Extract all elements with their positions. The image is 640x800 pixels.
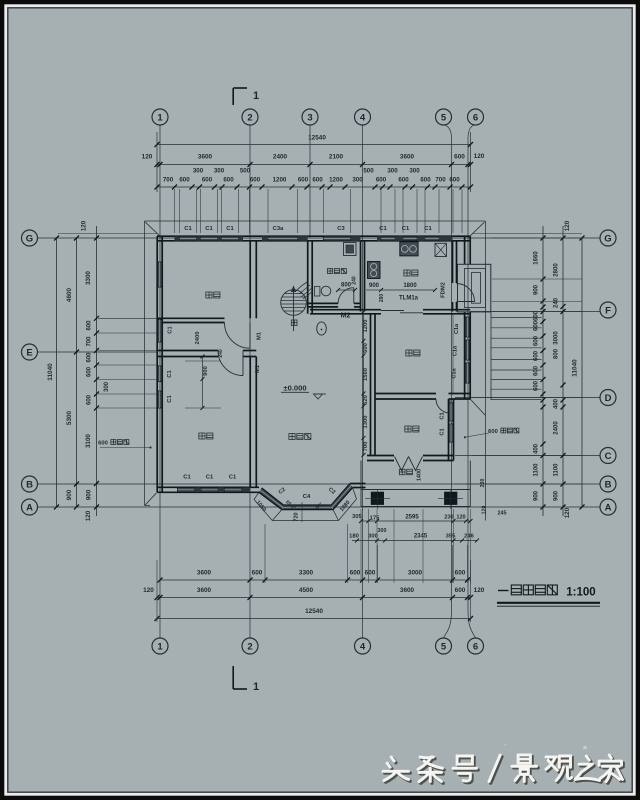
living room bottom-right wall	[350, 483, 366, 485]
bathroom flue square	[344, 243, 357, 256]
svg-text:3300: 3300	[299, 570, 314, 577]
svg-text:2400: 2400	[273, 154, 288, 161]
svg-text:1800: 1800	[403, 283, 417, 289]
svg-text:600: 600	[223, 177, 234, 184]
bedroom right wall lower	[249, 357, 251, 488]
svg-text:C1a: C1a	[453, 345, 459, 356]
svg-text:±0.000: ±0.000	[283, 384, 306, 393]
svg-text:4: 4	[360, 641, 366, 652]
svg-text:3600: 3600	[400, 587, 415, 594]
top extension lines to wall	[174, 189, 176, 233]
corner diagonal bay corners	[254, 492, 259, 499]
title underline double	[497, 602, 600, 604]
svg-text:B: B	[26, 479, 33, 490]
porch column right	[445, 492, 457, 504]
door M1 bedroom1 arc	[224, 323, 250, 349]
axis line 4 vertical	[362, 125, 364, 638]
windows C1a dining right wall x3	[465, 317, 470, 337]
axis line 1 vertical	[159, 125, 161, 638]
svg-text:246: 246	[464, 534, 474, 540]
svg-text:3100: 3100	[85, 434, 92, 448]
axis circle F right	[600, 302, 616, 318]
bottom dim row A details	[160, 579, 471, 581]
right extension lines	[492, 237, 582, 239]
axis line F horizontal	[470, 311, 600, 313]
svg-text:400: 400	[554, 398, 560, 409]
svg-text:600: 600	[363, 343, 369, 353]
svg-text:800: 800	[341, 283, 352, 289]
axis circle E left	[22, 344, 38, 360]
top dim row total 12540	[157, 144, 471, 146]
svg-text:245: 245	[498, 511, 507, 517]
axis circle G right	[600, 230, 616, 246]
svg-text:1560: 1560	[363, 368, 369, 381]
svg-text:3600: 3600	[197, 570, 212, 577]
svg-text:600: 600	[454, 154, 465, 161]
svg-text:1200: 1200	[273, 177, 287, 184]
svg-text:600: 600	[376, 177, 387, 184]
svg-text:2345: 2345	[414, 534, 428, 540]
svg-text:FDM2: FDM2	[441, 282, 447, 298]
corner diagonal top-left	[145, 222, 161, 237]
svg-text:C1: C1	[184, 226, 192, 232]
D-axis step wall	[449, 393, 471, 395]
svg-text:1200: 1200	[329, 177, 343, 184]
solid piers between top windows	[175, 236, 180, 241]
svg-text:C1: C1	[440, 428, 446, 435]
svg-text:3000: 3000	[408, 570, 423, 577]
spiral stair	[281, 290, 307, 316]
svg-text:C1: C1	[226, 226, 234, 232]
axis circle C right	[600, 448, 616, 464]
svg-text:11040: 11040	[572, 359, 579, 377]
svg-text:5300: 5300	[66, 410, 73, 425]
label porch 门廊	[399, 469, 405, 475]
svg-text:600: 600	[398, 177, 409, 184]
svg-text:300: 300	[104, 381, 110, 392]
svg-text:600: 600	[87, 394, 93, 405]
svg-text:C3: C3	[337, 226, 345, 232]
svg-text:TLM1a: TLM1a	[399, 296, 419, 302]
svg-text:4600: 4600	[66, 287, 73, 302]
svg-text:C1: C1	[183, 475, 191, 481]
axis circle 1 top	[152, 109, 168, 125]
bay window walls	[259, 488, 353, 510]
svg-text:120: 120	[564, 220, 571, 231]
axis 5 leader top	[444, 125, 452, 138]
svg-text:1100: 1100	[554, 463, 560, 477]
svg-text:D: D	[605, 393, 612, 404]
svg-text:600: 600	[250, 177, 261, 184]
axis 6 leader top	[468, 125, 476, 138]
svg-text:600: 600	[87, 320, 93, 331]
bathroom dim 800	[338, 289, 355, 291]
svg-text:1200: 1200	[363, 320, 369, 333]
svg-text:3600: 3600	[197, 587, 212, 594]
svg-text:500: 500	[240, 168, 251, 175]
svg-text:600: 600	[87, 366, 93, 377]
svg-text:C4: C4	[303, 494, 311, 500]
svg-text:2595: 2595	[405, 515, 419, 521]
right dim inner column	[542, 226, 544, 516]
svg-text:720: 720	[294, 512, 300, 521]
axis line 6 vertical	[467, 138, 469, 610]
svg-text:280: 280	[379, 294, 385, 303]
apron outline right	[485, 221, 487, 521]
kitchen stove	[400, 242, 418, 256]
svg-text:A: A	[605, 502, 612, 513]
toilet	[314, 287, 320, 297]
bathroom south wall	[308, 302, 338, 304]
label bedroom1 卧室	[206, 292, 212, 298]
door arc hall NE	[436, 399, 450, 413]
porch slab	[360, 461, 362, 507]
svg-text:3: 3	[307, 112, 312, 123]
solid piers bottom bedroom wall	[195, 488, 202, 493]
svg-text:1300: 1300	[363, 416, 369, 429]
svg-text:900: 900	[203, 366, 209, 376]
hall (guoting) right wall	[448, 399, 450, 461]
porch column left	[371, 492, 383, 504]
svg-text:G: G	[26, 233, 33, 244]
watermark 头条号 / 景观之家	[385, 759, 411, 782]
svg-text:300: 300	[368, 534, 378, 540]
label kitchen 厨房	[404, 270, 410, 276]
svg-text:6: 6	[473, 641, 478, 652]
label hall 过厅	[405, 426, 411, 432]
svg-text:C1: C1	[424, 226, 432, 232]
kitchen west wall	[360, 241, 362, 312]
axis line G horizontal	[38, 237, 600, 239]
svg-text:C3a: C3a	[273, 226, 284, 232]
svg-text:120: 120	[85, 510, 92, 521]
window C3a stair bay top	[268, 236, 298, 241]
entrance landing platform right	[458, 264, 491, 312]
axis 5 leader bottom	[444, 610, 452, 638]
axis line 5 vertical	[451, 138, 453, 610]
axis circle 2 bottom	[242, 638, 258, 654]
axis line E horizontal	[38, 351, 157, 353]
top dim row 2 axis spans	[157, 164, 471, 166]
bedroom right wall upper	[249, 241, 251, 318]
porch bottom dims row1	[361, 520, 471, 522]
apron outline left	[144, 221, 146, 506]
stair-bay east wall / bathroom west wall	[307, 241, 309, 314]
svg-text:230: 230	[444, 515, 453, 521]
svg-text:600: 600	[365, 570, 376, 577]
window C1 kitchen x3 top	[381, 236, 395, 241]
windows C1 bedroom2 bottom x3	[178, 488, 242, 493]
corner diagonal bottom-left	[145, 493, 156, 505]
svg-text:C1: C1	[167, 370, 173, 378]
axis circle A right	[600, 499, 616, 515]
title 一层平面图 1:100	[498, 590, 509, 592]
dining right exterior wall	[464, 312, 466, 400]
svg-text:3300: 3300	[85, 271, 92, 285]
faint dust specks	[583, 746, 587, 750]
bottom dim row B spans	[157, 597, 471, 599]
axis circle 4 bottom	[355, 638, 371, 654]
apron outline top	[145, 220, 486, 222]
svg-text:C1: C1	[440, 412, 446, 419]
label living room 会客厅	[289, 434, 295, 440]
axis circle A left	[22, 499, 38, 515]
svg-text:C1: C1	[205, 226, 213, 232]
svg-text:600: 600	[488, 429, 498, 435]
living/dining west wall	[370, 314, 372, 456]
svg-text:M1: M1	[257, 331, 263, 340]
svg-text:120: 120	[474, 153, 485, 160]
entrance double door V marks	[395, 457, 409, 471]
side exterior stair treads	[491, 317, 542, 319]
top exterior wall	[157, 235, 471, 237]
svg-text:120: 120	[81, 220, 88, 231]
svg-text:120: 120	[456, 515, 465, 521]
svg-text:300: 300	[378, 528, 387, 534]
svg-text:600: 600	[534, 310, 540, 321]
F-axis wall below bathroom/kitchen	[310, 309, 381, 311]
svg-text:1400: 1400	[417, 469, 423, 481]
svg-text:120: 120	[474, 587, 485, 594]
svg-text:5: 5	[441, 112, 447, 123]
windows C1 hall right wall x2	[449, 403, 454, 421]
axis circle 2 top	[242, 109, 258, 125]
svg-text:C1: C1	[167, 395, 173, 403]
svg-text:C1: C1	[402, 226, 410, 232]
axis 6 leader bottom	[468, 610, 476, 638]
svg-text:1: 1	[253, 90, 259, 102]
svg-text:900: 900	[66, 489, 73, 500]
axis line D horizontal	[455, 397, 600, 399]
svg-text:355: 355	[446, 534, 456, 540]
bottom-left exterior wall (bedroom 2)	[157, 486, 259, 488]
axis line C horizontal	[455, 455, 600, 457]
svg-text:120: 120	[143, 587, 154, 594]
axis circle 5 bottom	[436, 638, 452, 654]
svg-text:600: 600	[449, 177, 460, 184]
svg-text:400: 400	[534, 443, 540, 454]
svg-text:520: 520	[363, 395, 369, 405]
svg-text:240: 240	[352, 276, 358, 285]
svg-text:C: C	[605, 451, 612, 462]
svg-text:E: E	[26, 347, 32, 358]
interior D wall dining/hall with opening	[375, 393, 436, 395]
bottom dim row total 12540	[157, 618, 471, 620]
kitchen right wall	[452, 241, 454, 283]
svg-text:120: 120	[564, 507, 571, 518]
fridge	[435, 243, 447, 256]
svg-text:5: 5	[441, 641, 447, 652]
axis circle 6 top	[468, 109, 484, 125]
door M1 bedroom2 arc	[218, 351, 243, 376]
svg-text:2400: 2400	[195, 332, 201, 345]
svg-text:M1: M1	[255, 364, 261, 373]
bay windows C2 C4 C2 dark bands	[260, 490, 283, 507]
section mark 1 bottom	[232, 666, 234, 689]
apron bottom right porch	[357, 520, 486, 522]
svg-text:600: 600	[252, 570, 263, 577]
axis circle B left	[22, 476, 38, 492]
window C3 bathroom top	[324, 236, 351, 241]
svg-text:240: 240	[218, 349, 224, 358]
svg-text:120: 120	[482, 506, 488, 515]
svg-text:600: 600	[455, 587, 466, 594]
axis circle 4 top	[355, 109, 371, 125]
svg-text:C1a: C1a	[454, 323, 460, 334]
svg-text:240: 240	[554, 297, 560, 308]
left dim middle column	[76, 238, 78, 507]
svg-text:2800: 2800	[554, 263, 560, 277]
hall bottom wall with entrance	[367, 455, 394, 457]
label dining 餐厅	[406, 350, 412, 356]
svg-text:300: 300	[214, 168, 225, 175]
axis circle G left	[22, 230, 38, 246]
svg-text:600: 600	[455, 570, 466, 577]
FDM2 door arc	[457, 284, 475, 302]
svg-text:G: G	[604, 233, 611, 244]
window C1 bedroom1 x3 top	[180, 236, 197, 241]
corner diagonal right D step	[470, 399, 485, 416]
kitchen dim 900 1800	[366, 289, 381, 291]
svg-text:900: 900	[369, 283, 380, 289]
svg-text:600: 600	[179, 177, 190, 184]
svg-text:900: 900	[86, 489, 93, 500]
right dim total 11040	[581, 238, 583, 507]
svg-text:900: 900	[534, 284, 540, 295]
axis circle 6 bottom	[468, 638, 484, 654]
svg-text:300: 300	[387, 168, 398, 175]
svg-text:600: 600	[534, 335, 540, 346]
axis line 3 vertical	[309, 125, 311, 238]
svg-text:600: 600	[534, 320, 540, 331]
svg-text:600: 600	[298, 177, 309, 184]
washbasin	[317, 322, 327, 335]
svg-text:600: 600	[350, 570, 361, 577]
label bedroom2 卧室	[199, 433, 205, 439]
svg-text:1100: 1100	[534, 463, 540, 477]
svg-text:1:100: 1:100	[566, 587, 595, 599]
svg-text:700: 700	[87, 336, 93, 347]
svg-text:175: 175	[370, 516, 380, 522]
svg-text:F: F	[605, 305, 611, 316]
living west interior dim column	[363, 312, 365, 456]
svg-text:C1: C1	[206, 475, 214, 481]
kitchen sink	[368, 262, 381, 279]
axis circle D right	[600, 390, 616, 406]
corner diagonal top-right	[469, 222, 485, 237]
svg-text:C1a: C1a	[452, 367, 458, 378]
svg-text:6: 6	[473, 112, 478, 123]
svg-text:500: 500	[363, 168, 374, 175]
door M2 bathroom arc	[338, 288, 354, 304]
svg-text:300: 300	[409, 168, 420, 175]
apron bottom-left	[145, 505, 151, 507]
svg-text:2: 2	[247, 641, 252, 652]
svg-text:120: 120	[142, 154, 153, 161]
windows C1 left wall bedroom1	[157, 262, 162, 287]
svg-text:230: 230	[480, 479, 486, 488]
left exterior wall	[156, 236, 158, 492]
svg-text:4500: 4500	[299, 587, 314, 594]
top dim row 3 detail dims	[157, 186, 471, 188]
svg-text:800: 800	[554, 348, 560, 359]
svg-text:700: 700	[435, 177, 446, 184]
svg-text:300: 300	[193, 168, 204, 175]
label bathroom 卫生间	[327, 269, 332, 274]
TLM1a sliding door	[381, 310, 404, 312]
porch bottom dims row2	[352, 540, 477, 542]
svg-text:600: 600	[202, 177, 213, 184]
svg-text:180: 180	[349, 534, 359, 540]
apron bay bottom	[254, 499, 357, 521]
svg-text:600: 600	[98, 441, 108, 447]
windows C1 left wall bedroom2	[157, 366, 162, 382]
bottom extension lines	[156, 560, 158, 622]
axis line 2 vertical	[249, 125, 251, 638]
svg-text:300: 300	[352, 177, 363, 184]
stair up label	[291, 320, 297, 326]
svg-text:3600: 3600	[400, 154, 415, 161]
svg-text:C1: C1	[168, 326, 174, 334]
bedroom1 south wall	[157, 317, 224, 319]
wall between bedrooms	[157, 350, 218, 352]
dining vertical dim 1200 right	[452, 314, 454, 394]
side exterior stair stringer	[490, 312, 492, 400]
right exterior wall upper (kitchen corner)	[464, 236, 466, 264]
svg-text:11040: 11040	[47, 363, 54, 381]
svg-text:900: 900	[554, 490, 560, 501]
axis circle 5 top	[436, 109, 452, 125]
svg-text:600: 600	[312, 177, 323, 184]
svg-text:3600: 3600	[198, 154, 213, 161]
svg-text:600: 600	[87, 352, 93, 363]
svg-text:4: 4	[360, 112, 366, 123]
svg-text:1: 1	[157, 641, 163, 652]
bedroom1 interior dims	[202, 357, 204, 409]
svg-text:A: A	[26, 502, 33, 513]
svg-text:12540: 12540	[305, 608, 323, 615]
left dim inner column	[96, 226, 98, 516]
svg-text:C1: C1	[229, 475, 237, 481]
svg-text:900: 900	[534, 490, 540, 501]
axis circle B right	[600, 476, 616, 492]
svg-text:3000: 3000	[554, 331, 560, 345]
svg-text:1: 1	[157, 112, 163, 123]
svg-text:2: 2	[247, 112, 252, 123]
svg-text:2100: 2100	[329, 154, 344, 161]
left extension lines	[98, 317, 157, 319]
axis line A horizontal	[38, 506, 600, 508]
svg-text:600: 600	[534, 365, 540, 376]
svg-text:2400: 2400	[554, 421, 560, 435]
right dim middle column	[562, 226, 564, 516]
svg-text:C1: C1	[379, 226, 387, 232]
svg-text:700: 700	[163, 177, 174, 184]
svg-text:1: 1	[253, 681, 259, 693]
svg-text:B: B	[605, 479, 612, 490]
svg-text:12540: 12540	[308, 135, 326, 142]
axis line B horizontal	[38, 483, 600, 485]
svg-text:700: 700	[363, 442, 369, 452]
axis circle 3 top	[302, 109, 318, 125]
svg-text:1660: 1660	[534, 251, 540, 265]
svg-text:600: 600	[420, 177, 431, 184]
section mark 1 top	[232, 88, 234, 105]
axis circle 1 bottom	[152, 638, 168, 654]
left dim total 11040	[56, 238, 58, 507]
